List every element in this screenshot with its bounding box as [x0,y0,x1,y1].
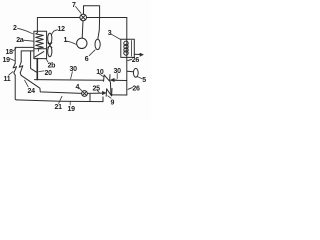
svg-text:9: 9 [111,100,115,107]
svg-text:21: 21 [55,104,63,111]
svg-text:30: 30 [114,68,122,75]
svg-text:2: 2 [13,25,17,32]
svg-text:11: 11 [4,76,11,83]
svg-text:3: 3 [108,30,112,37]
svg-text:7: 7 [72,2,76,9]
svg-text:6: 6 [85,56,89,63]
svg-text:25: 25 [93,86,101,93]
svg-text:1: 1 [64,37,68,44]
svg-text:5: 5 [142,77,146,84]
svg-text:20: 20 [45,70,53,77]
svg-text:26: 26 [132,57,140,64]
svg-text:2a: 2a [16,37,24,44]
svg-text:19: 19 [68,106,76,113]
svg-text:10: 10 [96,69,104,76]
svg-text:12: 12 [58,26,66,33]
svg-text:2b: 2b [48,63,56,70]
svg-text:18: 18 [6,49,14,56]
svg-text:26: 26 [132,85,140,92]
svg-text:24: 24 [28,88,36,95]
svg-text:4: 4 [76,84,80,91]
svg-text:19: 19 [3,57,11,64]
svg-text:30: 30 [70,66,78,73]
